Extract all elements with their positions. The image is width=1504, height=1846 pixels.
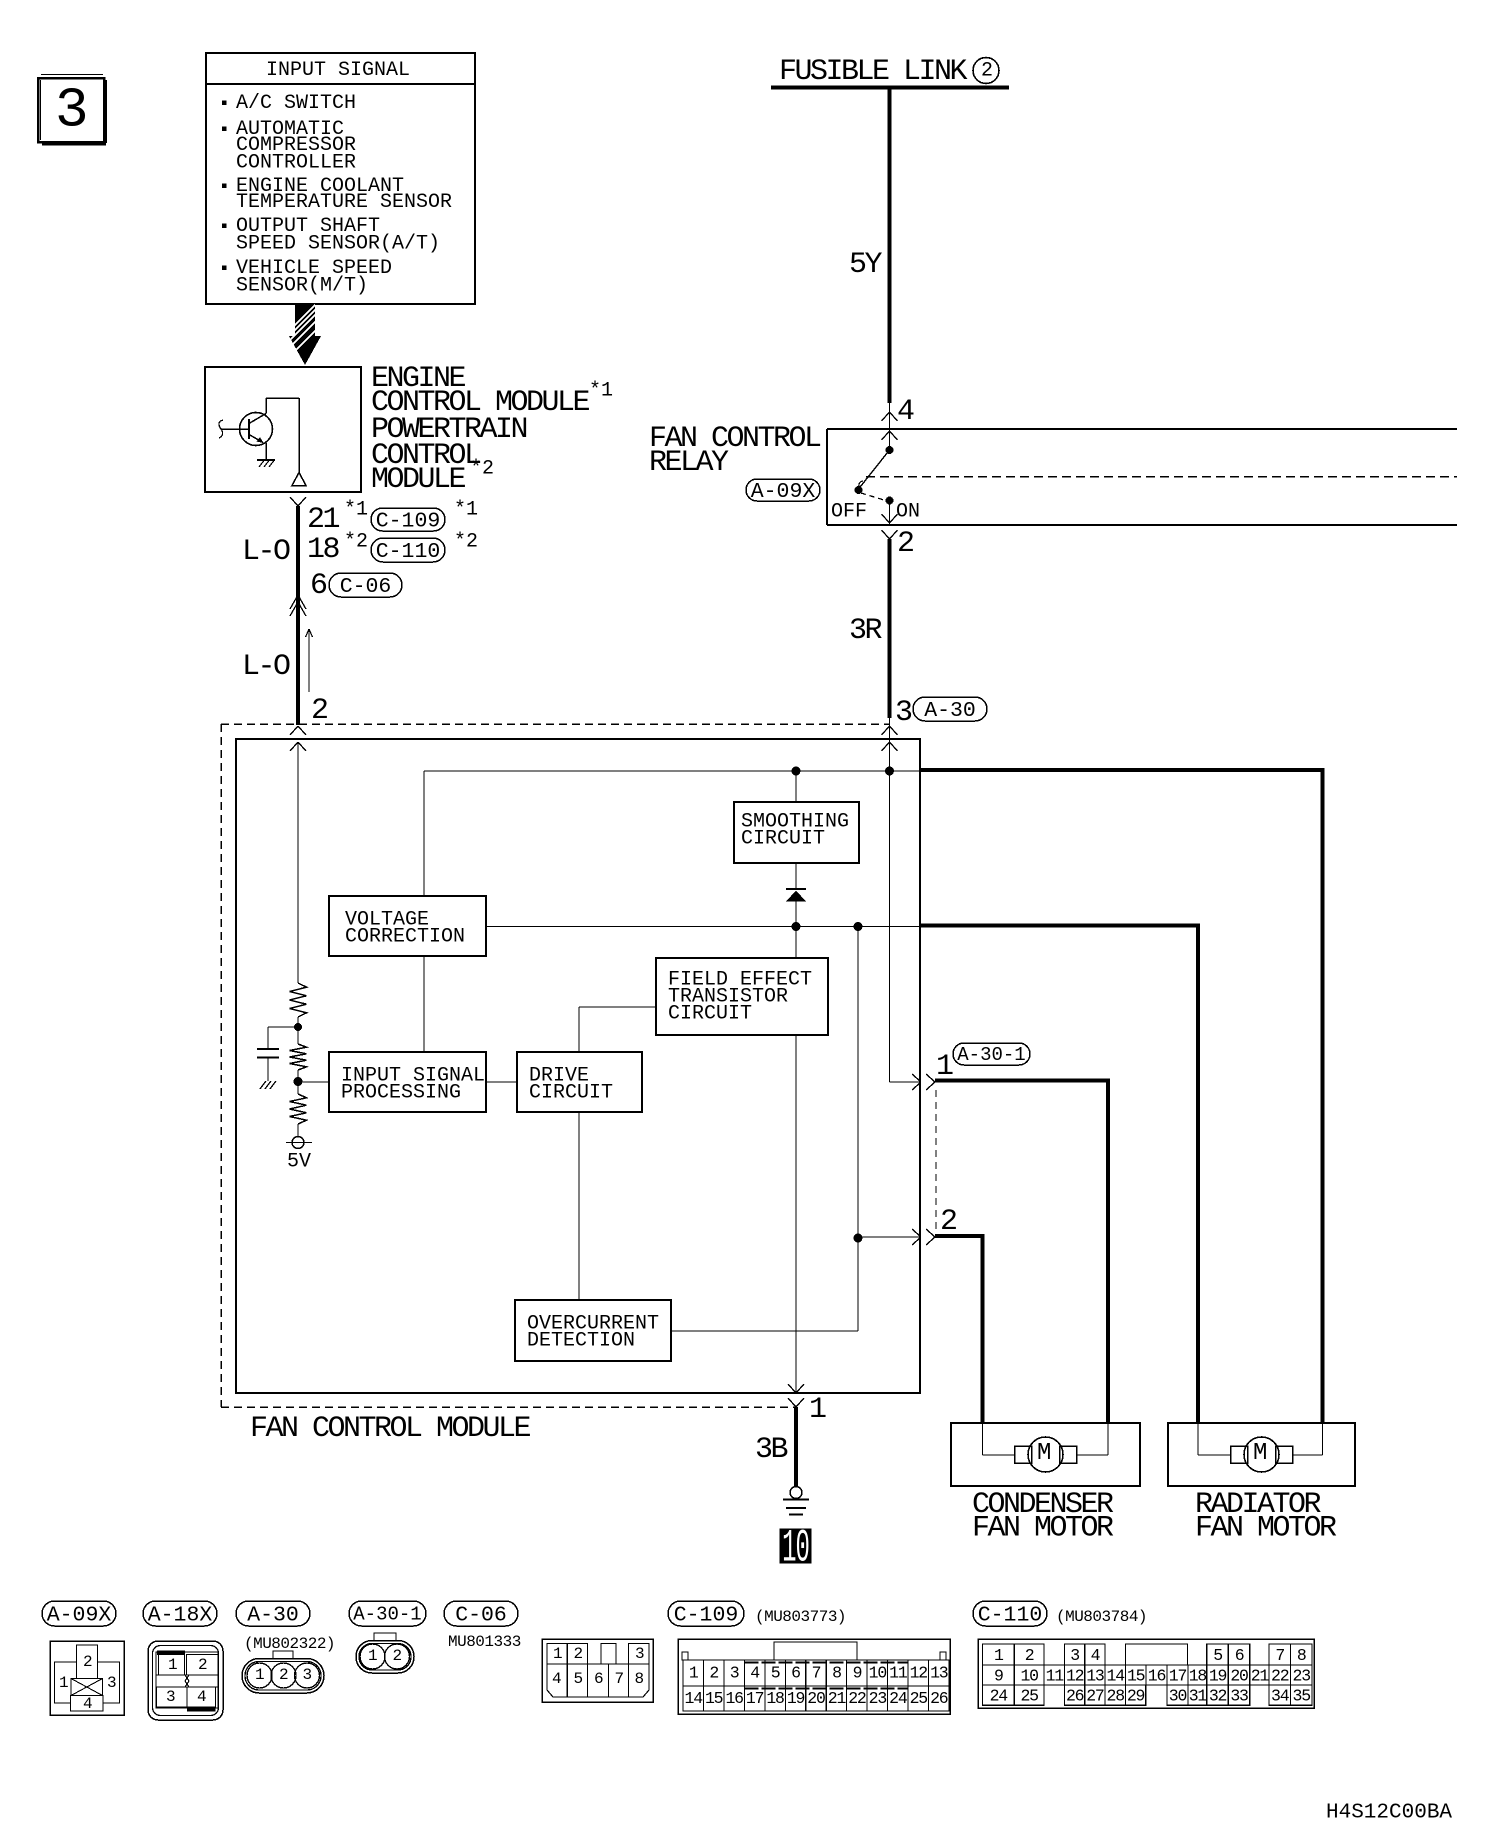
wire FET bottom	[795, 1035, 797, 1393]
resistor R3	[290, 1094, 307, 1124]
pin 6 label	[310, 569, 327, 603]
input signal item ENGINE COOLANT TEMPERATURE SENSOR	[236, 175, 452, 214]
svg-text:3: 3	[635, 1645, 644, 1663]
svg-text:1: 1	[689, 1663, 699, 1682]
svg-text:C-110: C-110	[376, 540, 441, 564]
svg-text:L-O: L-O	[242, 650, 290, 684]
svg-text:2: 2	[709, 1663, 718, 1682]
svg-text:16: 16	[725, 1689, 743, 1708]
svg-text:C-109: C-109	[376, 509, 441, 533]
svg-text:18: 18	[307, 533, 340, 567]
svg-text:5: 5	[1213, 1646, 1222, 1665]
pin 18 label	[307, 531, 368, 567]
svg-text:ON: ON	[896, 501, 920, 524]
wire drive to overcurrent	[578, 1112, 580, 1300]
connector A-09X drawing	[50, 1641, 124, 1715]
resistor R2	[290, 1044, 307, 1070]
wire L-O from ECM	[296, 506, 300, 725]
svg-text:CIRCUIT: CIRCUIT	[529, 1082, 613, 1105]
terminal 1 label	[809, 1393, 826, 1427]
svg-text:13: 13	[930, 1663, 948, 1682]
svg-text:10: 10	[869, 1663, 887, 1682]
relay terminal 2 inner arrow	[882, 514, 898, 523]
svg-text:3R: 3R	[849, 614, 883, 648]
relay terminal 2 arrow	[882, 530, 898, 539]
condenser fan motor	[951, 1423, 1140, 1486]
input signal processing box	[329, 1052, 486, 1112]
connector C-109 drawing	[678, 1639, 950, 1714]
svg-text:SPEED SENSOR(A/T): SPEED SENSOR(A/T)	[236, 233, 440, 256]
radiator fan motor label	[1195, 1488, 1337, 1546]
relay dashed actuation line	[866, 476, 1457, 478]
part number MU801333	[448, 1633, 521, 1651]
input signal bullets	[222, 101, 227, 271]
svg-text:A-30: A-30	[247, 1603, 299, 1627]
svg-text:1: 1	[168, 1656, 177, 1674]
svg-text:*1: *1	[344, 499, 368, 522]
svg-text:A-18X: A-18X	[148, 1603, 213, 1627]
fusible link label	[779, 55, 968, 89]
svg-text:9: 9	[994, 1666, 1003, 1685]
svg-text:CIRCUIT: CIRCUIT	[668, 1003, 752, 1026]
svg-text:(MU803784): (MU803784)	[1056, 1608, 1147, 1626]
junction dot pin2 branch	[854, 1234, 863, 1243]
svg-text:2: 2	[981, 60, 993, 83]
relay OFF label	[831, 501, 867, 524]
wire drive to FET	[579, 1007, 656, 1052]
input signal item AUTOMATIC COMPRESSOR CONTROLLER	[236, 118, 356, 175]
svg-text:31: 31	[1189, 1687, 1208, 1706]
triangle terminal in ECM	[292, 473, 306, 486]
svg-text:18: 18	[1189, 1666, 1207, 1685]
wire R2 bottom	[297, 1070, 299, 1094]
svg-text:2: 2	[198, 1656, 207, 1674]
svg-text:4: 4	[750, 1663, 760, 1682]
svg-text:17: 17	[746, 1689, 764, 1708]
connector label C-06	[444, 1601, 518, 1627]
relay ON contact	[886, 497, 894, 526]
svg-text:7: 7	[615, 1670, 624, 1688]
relay ON label	[896, 501, 920, 524]
svg-text:35: 35	[1293, 1687, 1311, 1706]
svg-text:28: 28	[1107, 1687, 1125, 1706]
svg-text:3: 3	[303, 1666, 312, 1684]
connector C-110 drawing	[978, 1639, 1314, 1708]
connector A-30 ref	[913, 697, 987, 723]
svg-text:30: 30	[1169, 1687, 1187, 1706]
wire from terminal 2 to resistors	[297, 742, 299, 983]
wire 3B	[794, 1407, 798, 1486]
svg-text:INPUT SIGNAL: INPUT SIGNAL	[266, 59, 410, 82]
svg-text:4: 4	[897, 395, 914, 429]
terminal 3 arrows	[882, 726, 898, 751]
wire 3R net down to pin1	[889, 771, 891, 1082]
smoothing circuit box	[734, 802, 859, 863]
svg-text:3: 3	[730, 1663, 739, 1682]
svg-text:1: 1	[553, 1645, 562, 1663]
svg-text:FAN MOTOR: FAN MOTOR	[972, 1512, 1114, 1546]
fusible link number 2 circle	[973, 58, 999, 84]
radiator fan motor	[1168, 1423, 1355, 1486]
svg-text:6: 6	[594, 1670, 603, 1688]
relay switch blade	[855, 450, 890, 494]
svg-text:A-09X: A-09X	[751, 480, 816, 504]
svg-text:23: 23	[869, 1689, 887, 1708]
fan control module inner box	[236, 739, 920, 1393]
connector label A-30	[236, 1601, 310, 1627]
svg-text:11: 11	[1046, 1666, 1065, 1685]
relay OFF-ON dashed throw	[861, 493, 884, 500]
fan control relay box	[827, 429, 1457, 525]
svg-text:*1: *1	[454, 499, 478, 522]
svg-text:2: 2	[1025, 1646, 1034, 1665]
svg-text:24: 24	[889, 1689, 908, 1708]
field effect transistor circuit box	[656, 958, 828, 1035]
wire color L-O label	[242, 535, 290, 569]
svg-text:3: 3	[107, 1674, 116, 1692]
module terminal 2 arrows	[290, 726, 306, 751]
svg-text:10: 10	[782, 1523, 809, 1576]
input signal item VEHICLE SPEED SENSOR	[236, 257, 392, 298]
svg-text:4: 4	[197, 1688, 206, 1706]
svg-text:FUSIBLE LINK: FUSIBLE LINK	[779, 55, 968, 89]
connector A-30-1 ref	[953, 1043, 1030, 1066]
svg-text:FAN MOTOR: FAN MOTOR	[1195, 1512, 1337, 1546]
svg-text:27: 27	[1086, 1687, 1104, 1706]
svg-text:4: 4	[83, 1695, 92, 1713]
striped arrow to ECM	[287, 295, 326, 365]
wire color L-O label 2	[242, 650, 290, 684]
pin 21 label	[307, 499, 368, 537]
svg-text:C-06: C-06	[340, 575, 392, 599]
overcurrent detection box	[515, 1300, 671, 1361]
svg-text:6: 6	[310, 569, 327, 603]
wire to voltage correction	[423, 771, 425, 896]
part number MU803773	[755, 1608, 846, 1626]
svg-text:5: 5	[771, 1663, 780, 1682]
capacitor ground	[260, 1081, 276, 1089]
current direction arrow	[306, 629, 313, 692]
svg-text:TEMPERATURE SENSOR: TEMPERATURE SENSOR	[236, 191, 452, 214]
svg-text:15: 15	[705, 1689, 723, 1708]
svg-text:7: 7	[812, 1663, 821, 1682]
wire color 5Y label	[849, 248, 883, 282]
wire voltage correction to ISP	[423, 956, 425, 1052]
svg-text:1: 1	[255, 1666, 264, 1684]
part number MU803784	[1056, 1608, 1147, 1626]
svg-text:25: 25	[1020, 1687, 1038, 1706]
svg-text:C-109: C-109	[674, 1603, 739, 1627]
wire ISP left	[298, 1081, 329, 1083]
wire radiator left feed	[920, 926, 1200, 1424]
drawing number	[1326, 1801, 1452, 1824]
input signal title	[266, 59, 410, 82]
wire condenser left feed	[935, 1236, 985, 1423]
svg-text:MU801333: MU801333	[448, 1633, 521, 1651]
wire node C bus	[486, 926, 920, 928]
5V supply terminal	[286, 1137, 312, 1149]
transistor Q1	[219, 398, 273, 460]
capacitor C1 wire	[268, 1027, 298, 1049]
connector A-30-1 drawing	[356, 1633, 414, 1673]
connector C-06 crossing	[290, 595, 306, 616]
relay contact common	[886, 429, 894, 454]
svg-text:8: 8	[832, 1663, 841, 1682]
svg-text:3: 3	[55, 78, 89, 142]
connector A-30 drawing	[242, 1651, 324, 1693]
svg-text:2: 2	[574, 1645, 583, 1663]
svg-text:L-O: L-O	[242, 535, 290, 569]
svg-text:26: 26	[930, 1689, 948, 1708]
svg-text:*1: *1	[589, 380, 613, 403]
junction dot ISP node	[294, 1077, 303, 1086]
svg-text:12: 12	[1066, 1666, 1084, 1685]
svg-text:5Y: 5Y	[849, 248, 883, 282]
svg-text:22: 22	[848, 1689, 866, 1708]
svg-text:2: 2	[311, 694, 327, 728]
svg-text:25: 25	[910, 1689, 928, 1708]
wire 5Y	[888, 88, 892, 403]
terminal A-30-1 pin2 arrows	[858, 1229, 935, 1245]
svg-text:14: 14	[1107, 1666, 1126, 1685]
svg-text:21: 21	[828, 1689, 847, 1708]
pin2 label	[940, 1205, 956, 1239]
pin 2 label at module	[311, 694, 327, 728]
ECM collector wire	[266, 398, 299, 473]
input signal item A/C SWITCH	[236, 92, 356, 115]
ECM box	[205, 367, 361, 492]
svg-text:16: 16	[1148, 1666, 1166, 1685]
svg-text:3: 3	[1070, 1646, 1079, 1665]
ground in ECM	[257, 460, 275, 467]
wire 3R lower thin	[889, 718, 891, 771]
svg-text:13: 13	[1086, 1666, 1104, 1685]
wire overcurrent right	[671, 1330, 858, 1332]
connector C-110 ref	[371, 531, 478, 564]
svg-text:A-30-1: A-30-1	[957, 1044, 1025, 1066]
svg-text:2: 2	[393, 1647, 402, 1665]
svg-text:19: 19	[787, 1689, 805, 1708]
svg-text:1: 1	[994, 1646, 1004, 1665]
voltage correction box	[329, 896, 486, 956]
svg-text:PROCESSING: PROCESSING	[341, 1082, 461, 1105]
wire color 3R label	[849, 614, 883, 648]
relay terminal 4 inner arrow	[882, 431, 898, 440]
junction dot overcurrent net	[854, 922, 863, 931]
diode D1	[786, 889, 806, 927]
svg-text:12: 12	[910, 1663, 928, 1682]
junction dot diode bottom	[792, 922, 801, 931]
wire radiator right feed	[920, 770, 1325, 1423]
svg-text:2: 2	[83, 1653, 92, 1671]
wire 3R	[888, 539, 892, 718]
svg-text:4: 4	[1091, 1646, 1101, 1665]
svg-text:FAN CONTROL MODULE: FAN CONTROL MODULE	[250, 1412, 531, 1446]
svg-text:6: 6	[1235, 1646, 1244, 1665]
drive circuit box	[517, 1052, 642, 1112]
connector A-30-1 dashed link	[935, 1090, 937, 1229]
5V label	[287, 1151, 311, 1174]
svg-text:RELAY: RELAY	[649, 446, 729, 480]
svg-text:10: 10	[1020, 1666, 1038, 1685]
svg-text:5: 5	[574, 1670, 583, 1688]
wire node B bus	[424, 770, 920, 772]
svg-text:22: 22	[1271, 1666, 1289, 1685]
relay terminal 2 label	[897, 527, 913, 561]
pin1 label	[936, 1050, 953, 1084]
svg-text:CONTROLLER: CONTROLLER	[236, 152, 356, 175]
terminal A-30-1 pin1 arrows	[890, 1074, 936, 1090]
fan control relay label	[649, 422, 821, 480]
connector label C-109	[668, 1601, 744, 1627]
svg-text:5V: 5V	[287, 1151, 311, 1174]
svg-text:CORRECTION: CORRECTION	[345, 926, 465, 949]
module terminal 3 label	[895, 696, 912, 730]
svg-text:21: 21	[307, 503, 340, 537]
connector C-109 ref	[371, 499, 478, 534]
svg-text:CIRCUIT: CIRCUIT	[741, 828, 825, 851]
svg-text:11: 11	[889, 1663, 908, 1682]
fan control module label	[250, 1412, 531, 1446]
svg-text:2: 2	[279, 1666, 288, 1684]
svg-text:7: 7	[1275, 1646, 1284, 1665]
ground reference 10 box	[780, 1523, 811, 1576]
svg-text:H4S12C00BA: H4S12C00BA	[1326, 1801, 1452, 1824]
svg-text:8: 8	[1297, 1646, 1306, 1665]
fan control module dashed box	[221, 724, 889, 1407]
svg-text:A/C SWITCH: A/C SWITCH	[236, 92, 356, 115]
svg-text:33: 33	[1230, 1687, 1248, 1706]
svg-text:14: 14	[685, 1689, 704, 1708]
input signal item OUTPUT SHAFT SPEED SENSOR	[236, 215, 440, 256]
wire R1-R2	[297, 1017, 299, 1044]
wire color 3B label	[755, 1433, 788, 1467]
input signal box	[206, 53, 475, 304]
svg-text:3: 3	[166, 1688, 175, 1706]
junction dot capacitor node	[294, 1023, 302, 1031]
svg-text:M: M	[1037, 1440, 1051, 1467]
svg-text:A-30-1: A-30-1	[353, 1604, 421, 1626]
terminal 1 arrows	[788, 1384, 804, 1407]
page number box 3	[38, 75, 106, 145]
svg-text:SENSOR(M/T): SENSOR(M/T)	[236, 275, 368, 298]
ECM label ENGINE CONTROL MODULE *1	[371, 362, 613, 420]
capacitor C1	[257, 1049, 279, 1081]
svg-text:M: M	[1253, 1440, 1267, 1467]
svg-text:26: 26	[1066, 1687, 1084, 1706]
svg-text:A-09X: A-09X	[47, 1603, 112, 1627]
svg-text:29: 29	[1127, 1687, 1145, 1706]
junction dot 3R net	[885, 767, 894, 776]
svg-text:8: 8	[635, 1670, 644, 1688]
connector label A-18X	[143, 1601, 217, 1627]
svg-text:MODULE: MODULE	[371, 463, 466, 497]
svg-text:17: 17	[1169, 1666, 1187, 1685]
svg-text:19: 19	[1209, 1666, 1227, 1685]
svg-text:C-110: C-110	[978, 1603, 1043, 1627]
wire R3 bottom	[297, 1124, 299, 1137]
svg-text:9: 9	[853, 1663, 862, 1682]
svg-text:4: 4	[552, 1670, 561, 1688]
svg-text:DETECTION: DETECTION	[527, 1330, 635, 1353]
svg-text:1: 1	[809, 1393, 826, 1427]
svg-text:6: 6	[791, 1663, 800, 1682]
svg-text:15: 15	[1127, 1666, 1145, 1685]
svg-text:20: 20	[1230, 1666, 1248, 1685]
wire ISP to drive	[486, 1081, 517, 1083]
svg-text:(MU803773): (MU803773)	[755, 1608, 846, 1626]
svg-text:34: 34	[1271, 1687, 1290, 1706]
junction dot smoothing top	[792, 767, 801, 776]
wire smoothing top	[795, 771, 797, 802]
connector label C-110	[973, 1601, 1047, 1627]
fusible link bus bar	[771, 86, 1009, 90]
svg-text:1: 1	[59, 1674, 68, 1692]
svg-text:*2: *2	[344, 531, 368, 554]
wire smoothing bottom	[795, 863, 797, 889]
svg-text:*2: *2	[454, 531, 478, 554]
svg-text:*2: *2	[470, 458, 494, 481]
wire FET top feed	[795, 927, 797, 959]
relay terminal 4 arrow	[882, 395, 915, 429]
svg-text:1: 1	[368, 1647, 377, 1665]
svg-text:3B: 3B	[755, 1433, 788, 1467]
connector label A-09X	[42, 1601, 116, 1627]
svg-text:C-06: C-06	[455, 1603, 507, 1627]
svg-text:21: 21	[1251, 1666, 1270, 1685]
ECM label POWERTRAIN CONTROL MODULE *2	[371, 413, 527, 497]
wire overcurrent vertical	[857, 927, 859, 1332]
part number MU802322	[244, 1635, 335, 1653]
connector C-06 drawing	[542, 1639, 653, 1702]
svg-text:18: 18	[766, 1689, 784, 1708]
svg-text:A-30: A-30	[924, 699, 976, 723]
resistor R1	[290, 983, 307, 1017]
connector arrow at ECM pin	[290, 497, 306, 506]
svg-text:24: 24	[990, 1687, 1009, 1706]
condenser fan motor label	[972, 1488, 1114, 1546]
wire condenser right feed	[935, 1081, 1110, 1424]
svg-text:2: 2	[897, 527, 913, 561]
connector C-06 ref	[329, 573, 402, 599]
ground G1	[783, 1487, 809, 1515]
connector label A-30-1	[349, 1601, 426, 1626]
svg-text:20: 20	[807, 1689, 825, 1708]
svg-text:23: 23	[1293, 1666, 1311, 1685]
svg-text:32: 32	[1209, 1687, 1227, 1706]
relay connector A-09X ref	[746, 479, 820, 504]
svg-text:3: 3	[895, 696, 912, 730]
svg-text:OFF: OFF	[831, 501, 867, 524]
connector A-18X drawing	[148, 1641, 223, 1720]
